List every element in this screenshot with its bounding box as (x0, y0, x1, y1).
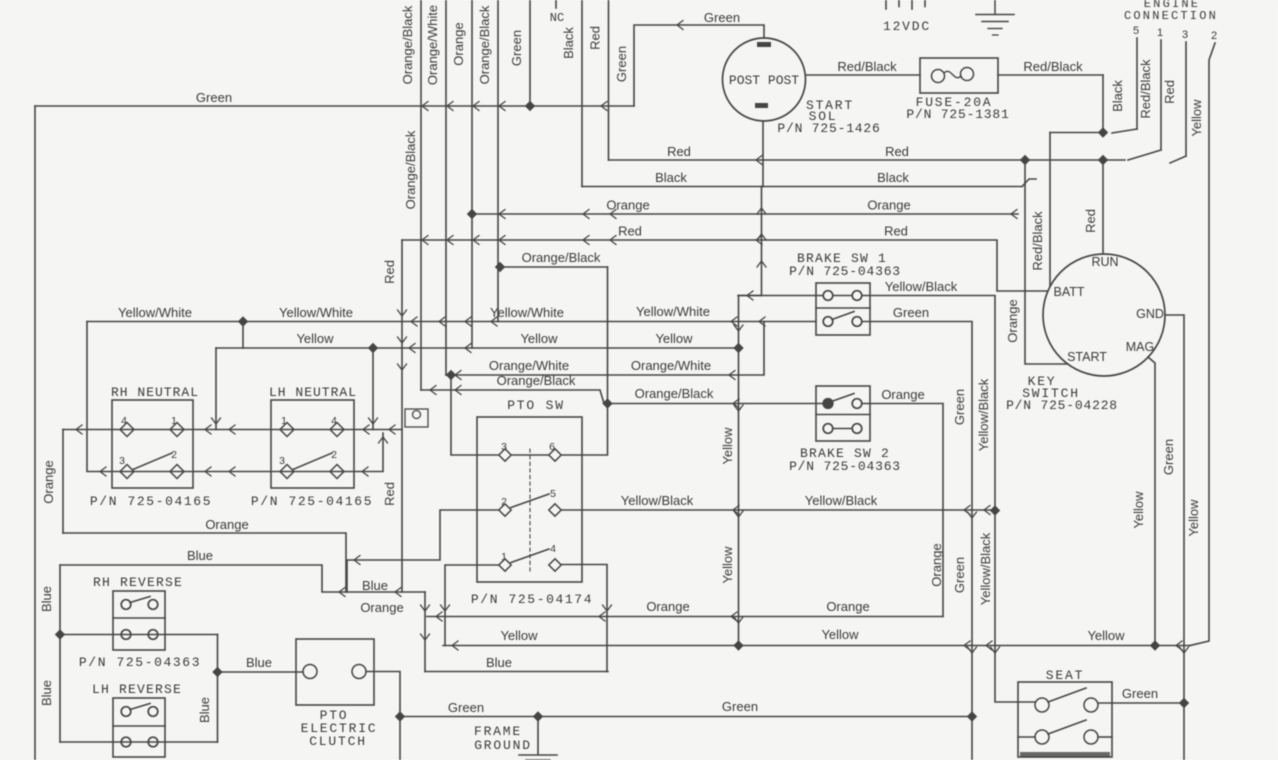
wire - Red main horizontal (609, 144, 1126, 165)
wire - Red down to key switch RUN (1083, 160, 1103, 254)
wire - Orange/Black lower main (421, 373, 714, 404)
wire - left riser to Orange (41, 430, 63, 534)
node - junction Yellow/Black seat riser (990, 505, 1000, 515)
svg-text:CLUTCH: CLUTCH (309, 734, 367, 749)
svg-text:2: 2 (1211, 30, 1217, 42)
svg-text:Orange/Black: Orange/Black (403, 130, 418, 209)
svg-text:CONNECTION: CONNECTION (1124, 9, 1218, 23)
node - junction Red/Black engine (1098, 127, 1108, 137)
wire - Orange main horizontal (472, 198, 1018, 219)
wire - Red riser mid (382, 240, 407, 592)
wire - seat green to GND riser (1098, 686, 1184, 703)
LH reverse switch - title (92, 682, 182, 697)
wire - reverse right riser (197, 635, 218, 743)
engine connection pin 5 (1110, 25, 1139, 133)
node - junction Blue clutch branch (212, 667, 222, 677)
svg-text:Black: Black (877, 170, 909, 185)
svg-text:Yellow: Yellow (1189, 99, 1204, 137)
wire - Red vertical from top (588, 0, 609, 160)
node - junction Green bundle (525, 101, 535, 111)
PTO electric clutch - body (296, 639, 374, 705)
wire - solenoid bottom post drop (762, 121, 764, 187)
wire - neutral bottom pin row (87, 322, 388, 477)
engine connection - title (1124, 0, 1218, 23)
LH neutral switch - label (251, 494, 373, 509)
wire - MAG output Yellow down (1131, 357, 1155, 646)
svg-text:Green: Green (952, 389, 967, 425)
svg-text:5: 5 (1133, 25, 1139, 37)
svg-text:Blue: Blue (362, 578, 388, 593)
engine connection pin 3 (1162, 29, 1188, 163)
svg-text:Red: Red (382, 260, 397, 284)
RH neutral switch - body (111, 385, 199, 488)
fuse 20A - body (920, 58, 998, 93)
svg-text:Red/Black: Red/Black (1023, 59, 1083, 74)
wire - Orange bottom (360, 599, 943, 621)
svg-text:Red: Red (667, 144, 691, 159)
wire - Yellow/White main (87, 304, 816, 326)
svg-text:Orange: Orange (41, 460, 56, 503)
brake switch 1 - body (816, 283, 870, 335)
svg-text:P/N 725-04363: P/N 725-04363 (79, 655, 201, 670)
svg-text:P/N 725-1381: P/N 725-1381 (906, 107, 1009, 122)
node - junction Green at frame wire (967, 711, 977, 721)
engine connection pin 2 - long Yellow drop (1186, 30, 1217, 646)
svg-text:Orange/White: Orange/White (489, 358, 569, 373)
svg-text:SEAT: SEAT (1046, 668, 1084, 683)
svg-text:GROUND: GROUND (474, 738, 532, 753)
svg-text:Yellow: Yellow (655, 331, 693, 346)
node - junction Orange/Black at brake SW2 feed (602, 398, 612, 408)
svg-text:Yellow: Yellow (296, 331, 334, 346)
node - junction Yellow/White (238, 316, 248, 326)
svg-text:POST POST: POST POST (729, 73, 799, 88)
svg-text:Green: Green (614, 46, 629, 82)
node - junction frame ground (533, 711, 543, 721)
fuse 20A - label (906, 95, 1009, 122)
wire - Yellow bottom (443, 627, 1190, 650)
svg-text:PTO SW: PTO SW (507, 398, 565, 413)
svg-text:Yellow/Black: Yellow/Black (976, 378, 991, 451)
svg-text:Orange/Black: Orange/Black (400, 5, 415, 84)
svg-text:P/N 725-04363: P/N 725-04363 (789, 459, 901, 474)
svg-text:Red: Red (588, 26, 603, 50)
svg-text:Yellow/White: Yellow/White (279, 305, 353, 320)
svg-text:Blue: Blue (187, 548, 213, 563)
wire - Yellow/White drop to Yellow (242, 322, 244, 349)
wire - Red/Black from solenoid to fuse (806, 59, 920, 75)
svg-text:Orange: Orange (606, 198, 649, 213)
wire - Black riser to brake SW1 (757, 187, 766, 296)
svg-text:Yellow: Yellow (1087, 628, 1125, 643)
svg-text:Yellow: Yellow (720, 427, 735, 465)
wire - LH reverse row (60, 741, 218, 743)
svg-text:Blue: Blue (246, 655, 272, 670)
seat switch - body (1018, 668, 1112, 757)
svg-text:Red/Black: Red/Black (1138, 59, 1153, 119)
svg-text:4: 4 (550, 543, 556, 555)
svg-text:Green: Green (509, 30, 524, 66)
node - junction Green seat (1179, 698, 1189, 708)
svg-text:Orange: Orange (360, 600, 403, 615)
LH reverse switch - body (113, 698, 165, 757)
RH reverse switch - label (79, 655, 201, 670)
connector - inline connector on red riser (405, 409, 428, 427)
svg-text:2: 2 (171, 449, 177, 461)
svg-text:P/N 725-1426: P/N 725-1426 (777, 121, 880, 136)
svg-text:3: 3 (279, 455, 285, 467)
svg-text:Orange/White: Orange/White (631, 358, 711, 373)
wire - Black vertical from top (561, 0, 582, 187)
svg-text:2: 2 (331, 449, 337, 461)
svg-text:Yellow: Yellow (1131, 491, 1146, 529)
wire - clutch to frame ground (366, 672, 400, 760)
svg-text:Yellow/Black: Yellow/Black (978, 532, 993, 605)
svg-text:Green: Green (704, 10, 740, 25)
svg-text:P/N 725-04228: P/N 725-04228 (1006, 398, 1118, 413)
battery 12VDC - plates (883, 0, 931, 34)
svg-text:Yellow: Yellow (821, 627, 859, 642)
svg-text:Yellow: Yellow (520, 331, 558, 346)
wire - Green riser and top run to solenoid (614, 10, 764, 106)
svg-text:LH NEUTRAL: LH NEUTRAL (269, 385, 357, 400)
svg-text:RH NEUTRAL: RH NEUTRAL (111, 385, 199, 400)
wire - left Blue vertical (39, 565, 60, 742)
svg-text:Black: Black (1110, 80, 1125, 112)
svg-text:BATT: BATT (1053, 285, 1084, 299)
svg-text:Green: Green (196, 90, 232, 105)
wire - PTO pin2 blue feed (347, 510, 499, 592)
wire - Green frame ground main (400, 699, 972, 717)
wire - neutral top pin row (63, 425, 402, 434)
svg-text:Orange/Black: Orange/Black (635, 386, 714, 401)
wire - Blue to clutch (218, 655, 304, 672)
svg-text:12VDC: 12VDC (883, 19, 931, 34)
svg-text:Red: Red (1083, 209, 1098, 233)
svg-text:Green: Green (1122, 686, 1158, 701)
node - junction Yellow left (368, 343, 378, 353)
wire - Yellow/White branch to PTO riser (738, 322, 764, 376)
wire - Red/Black from fuse to right riser (998, 59, 1103, 133)
wire - Orange from brake SW2 to Orange wire (863, 387, 944, 617)
brake switch 2 - label (789, 446, 901, 474)
svg-text:Green: Green (448, 700, 484, 715)
svg-text:Red/Black: Red/Black (837, 59, 897, 74)
svg-text:Black: Black (655, 170, 687, 185)
wire - Orange vertical V3 (451, 0, 472, 348)
svg-text:Orange: Orange (881, 387, 924, 402)
svg-text:Yellow: Yellow (720, 546, 735, 584)
svg-text:5: 5 (550, 488, 556, 500)
node - junction Yellow PTO riser (733, 640, 743, 650)
key switch - circle (1043, 254, 1165, 376)
svg-text:P/N 725-04165: P/N 725-04165 (251, 494, 373, 509)
svg-text:Orange: Orange (205, 517, 248, 532)
wire - Blue bottom segment (425, 655, 608, 672)
wire - PTO pin5 Yellow/Black (561, 493, 995, 515)
svg-text:Green: Green (1161, 439, 1176, 475)
svg-text:Yellow/Black: Yellow/Black (621, 493, 694, 508)
node - junction Blue RH reverse (55, 629, 65, 639)
svg-text:Green: Green (952, 557, 967, 593)
svg-text:Yellow: Yellow (1186, 499, 1201, 537)
node - junction Red at x1025 (1020, 155, 1030, 165)
svg-text:Green: Green (893, 305, 929, 320)
svg-text:Red/Black: Red/Black (1030, 211, 1045, 271)
svg-text:Orange/Black: Orange/Black (497, 373, 576, 388)
svg-text:Orange: Orange (867, 198, 910, 213)
wire - Black main horizontal (582, 170, 1036, 187)
svg-text:Orange: Orange (646, 599, 689, 614)
wire - RH reverse row (60, 634, 218, 636)
wire - Orange lower horizontal (63, 517, 346, 592)
svg-text:Yellow/Black: Yellow/Black (805, 493, 878, 508)
wire - Yellow left end drop (212, 348, 221, 430)
PTO switch - body (477, 398, 582, 582)
wire - Blue riser down (362, 578, 430, 672)
svg-text:Red: Red (1162, 80, 1177, 104)
svg-text:Blue: Blue (39, 586, 54, 612)
wire - Blue upper horizontal (60, 548, 425, 597)
node - junction Orange start (467, 209, 477, 219)
svg-text:Orange: Orange (826, 599, 869, 614)
wire - brake SW1 left feed (738, 291, 822, 300)
brake switch 2 - body (816, 386, 870, 441)
svg-text:RH REVERSE: RH REVERSE (93, 575, 183, 590)
svg-text:Orange: Orange (451, 22, 466, 65)
node - junction Red at x1103 (1098, 155, 1108, 165)
wire - Green from brake SW1 (863, 305, 977, 760)
svg-text:Green: Green (722, 699, 758, 714)
PTO electric clutch - label (301, 708, 378, 749)
wire - Yellow drop to neutral row (369, 348, 378, 430)
svg-text:Blue: Blue (486, 655, 512, 670)
svg-text:NC: NC (550, 11, 564, 25)
RH reverse switch - body (113, 591, 165, 650)
frame ground - stem and label (474, 717, 557, 760)
svg-text:Red: Red (885, 144, 909, 159)
svg-text:Orange/Black: Orange/Black (522, 250, 601, 265)
node - junction Yellow MAG (1150, 640, 1160, 650)
start solenoid - label START SOL P/N 725-1426 (777, 98, 880, 136)
wire - Orange/Black feed to brake SW2 (604, 399, 822, 408)
node - junction Orange/Black (495, 262, 505, 272)
wire - Orange/Black vertical V1 (400, 0, 421, 390)
svg-text:Yellow/Black: Yellow/Black (885, 279, 958, 294)
wire - Orange/Black horizontal to PTO riser (500, 250, 608, 267)
wire - Yellow/Black from brake SW1 (863, 279, 1035, 702)
wire - Green vertical V5 (509, 0, 530, 106)
node - junction Orange/White at PTO pin3 (446, 370, 456, 380)
node - junction clutch green (395, 711, 405, 721)
start solenoid - circle (723, 38, 806, 121)
wire - Orange/White drop to PTO pin3 (451, 375, 499, 455)
svg-text:P/N 725-04174: P/N 725-04174 (471, 592, 593, 607)
svg-text:Orange/Black: Orange/Black (477, 5, 492, 84)
wire - Orange/Black riser down to PTO pin6 (561, 267, 608, 455)
svg-text:Black: Black (561, 27, 576, 59)
svg-text:Yellow/White: Yellow/White (118, 305, 192, 320)
wire - Orange/White vertical V2 (425, 0, 446, 375)
brake switch 1 - label (789, 251, 901, 279)
svg-text:RUN: RUN (1091, 255, 1118, 269)
node - junction Yellow at PTO riser (733, 343, 743, 353)
node NC - not connected marker (550, 0, 564, 25)
svg-text:Blue: Blue (197, 697, 212, 723)
wire - Orange down to key switch START (1005, 160, 1068, 364)
wire - Orange/Black vertical V4 (477, 0, 498, 322)
svg-text:Yellow: Yellow (500, 628, 538, 643)
svg-text:START: START (1067, 350, 1107, 364)
svg-text:3: 3 (119, 455, 125, 467)
svg-text:LH REVERSE: LH REVERSE (92, 682, 182, 697)
RH reverse switch - title (93, 575, 183, 590)
wire - Green horizontal to start solenoid (35, 90, 634, 111)
svg-text:Red: Red (618, 224, 642, 239)
svg-text:P/N 725-04165: P/N 725-04165 (90, 494, 212, 509)
svg-text:Yellow/White: Yellow/White (636, 304, 710, 319)
wire - Yellow main left (216, 331, 739, 353)
svg-text:Red: Red (382, 482, 397, 506)
svg-text:Orange: Orange (1005, 299, 1020, 342)
wire - PTO yellow riser (720, 296, 762, 646)
PTO switch - label (471, 592, 593, 607)
svg-text:FRAME: FRAME (474, 724, 522, 739)
engine connection pin 1 (1128, 27, 1163, 160)
wire - Red/Black down to key switch BATT (1030, 133, 1050, 288)
svg-text:Red: Red (884, 224, 908, 239)
wire - PTO pin1 to Yellow (441, 565, 500, 646)
svg-text:P/N 725-04363: P/N 725-04363 (789, 264, 901, 279)
wire - Red second horizontal to BATT (402, 224, 1048, 292)
svg-text:Yellow/White: Yellow/White (490, 305, 564, 320)
wire - Orange/White main (446, 358, 738, 380)
svg-text:MAG: MAG (1126, 340, 1154, 354)
wire - left edge Green vertical (34, 106, 36, 760)
wire - Red/Black jumper at engine (1050, 132, 1103, 134)
wire - GND output going down (1161, 315, 1189, 760)
RH neutral switch - label (90, 494, 212, 509)
svg-text:Blue: Blue (39, 680, 54, 706)
LH neutral switch - body (269, 385, 357, 488)
ground - chassis ground top (976, 0, 1014, 35)
svg-text:Orange: Orange (929, 543, 944, 586)
svg-text:GND: GND (1136, 307, 1164, 321)
wire - PTO pin4 riser (561, 565, 612, 672)
svg-text:Orange/White: Orange/White (425, 5, 440, 85)
svg-text:3: 3 (1182, 29, 1188, 41)
key switch - label (1006, 374, 1118, 413)
svg-text:1: 1 (1157, 27, 1163, 39)
